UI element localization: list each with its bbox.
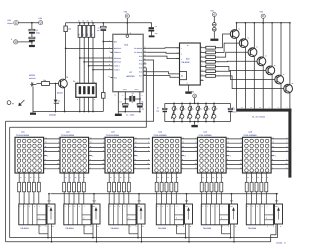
wire [108, 192, 110, 204]
svg-text:X1: X1 [132, 92, 134, 95]
svg-text:LD2: LD2 [66, 130, 70, 133]
svg-text:R: R [266, 218, 267, 220]
wire chain stub [276, 194, 278, 204]
wire pullup columns to IC1 pins [79, 37, 81, 83]
resistor R1 [42, 82, 50, 86]
wire chain stub [93, 194, 95, 204]
svg-text:13: 13 [20, 177, 22, 179]
wire DIP to ground bus [79, 97, 81, 111]
resistor array module 1 [18, 182, 21, 192]
svg-text:T9: T9 [66, 76, 68, 79]
svg-text:C4: C4 [119, 101, 121, 104]
bus bar horizontal row bus [236, 109, 291, 112]
transistor T9 BC547 [59, 79, 68, 88]
svg-text:C: C [181, 48, 182, 50]
legend jack symbol [7, 101, 11, 105]
capacitor C3 reset [102, 23, 104, 27]
wire data stub [51, 224, 53, 242]
ground [32, 112, 34, 113]
svg-text:XTAL2: XTAL2 [123, 89, 127, 91]
bus bar vertical row bus [288, 109, 291, 178]
svg-text:10: 10 [120, 177, 122, 179]
wire LD6 column pins [246, 173, 248, 182]
svg-text:A: A [181, 59, 182, 61]
wire base T3 [215, 43, 239, 52]
switch S2 [173, 103, 175, 105]
svg-text:10µ: 10µ [156, 109, 159, 112]
capacitor C4 [123, 104, 129, 106]
svg-text:74LS156: 74LS156 [181, 61, 190, 64]
wire [18, 41, 32, 43]
wire [124, 99, 126, 104]
svg-text:250mA: 250mA [7, 22, 13, 25]
node junction [31, 22, 33, 24]
svg-text:SRG: SRG [230, 206, 233, 208]
svg-text:XTAL1: XTAL1 [135, 89, 139, 91]
svg-text:10: 10 [167, 177, 169, 179]
wire chain stub [138, 194, 140, 204]
wire collector column [271, 74, 273, 108]
wire gnd stub [176, 225, 178, 234]
svg-text:LD6: LD6 [249, 130, 253, 133]
resistor array module 2 [63, 182, 66, 192]
clock box IC7 [230, 204, 238, 224]
wire [156, 192, 158, 204]
svg-text:C8: C8 [233, 108, 235, 111]
svg-text:13: 13 [65, 177, 67, 179]
svg-text:100µ: 100µ [36, 31, 40, 34]
svg-text:LD3: LD3 [111, 130, 115, 133]
svg-text:100n: 100n [233, 110, 237, 113]
wire P1.2 to IC2 [146, 56, 179, 59]
resistor array module 4 [155, 182, 158, 192]
svg-text:10: 10 [30, 177, 32, 179]
wire LD1 column pins [18, 173, 20, 182]
svg-text:=: = [12, 101, 14, 105]
wire [65, 23, 67, 26]
capacitor C8 [229, 103, 231, 108]
wire [194, 122, 196, 125]
svg-text:13: 13 [110, 177, 112, 179]
wire [63, 192, 65, 204]
wire [32, 87, 34, 112]
clock box IC8 [275, 204, 283, 224]
wire [18, 192, 20, 204]
svg-text:10: 10 [212, 177, 214, 179]
svg-text:10k: 10k [43, 79, 46, 82]
svg-text:R5: R5 [87, 20, 89, 22]
wire board bus left vertical 1 [5, 121, 7, 242]
capacitor C5 [137, 104, 143, 106]
ground [191, 125, 197, 127]
node 0V terminal [14, 40, 18, 44]
ground [185, 91, 191, 93]
wire chain stub [186, 194, 188, 204]
wire base T6 [215, 67, 266, 71]
node connector pin [212, 27, 216, 31]
resistor array module 5 [200, 182, 203, 192]
svg-text:13: 13 [202, 177, 204, 179]
wire clock stub [92, 224, 94, 238]
wire key rail bottom [165, 121, 231, 123]
svg-text:10k: 10k [87, 33, 89, 35]
wire LD4 column pins [156, 173, 158, 182]
capacitor C2 [29, 37, 35, 39]
wire [126, 18, 128, 34]
wire data stub [188, 224, 190, 242]
wire base T5 [215, 60, 257, 63]
resistor R7 [102, 93, 105, 99]
op-amp IC1 AT89C2051 [113, 34, 143, 91]
wire key rail top [165, 102, 231, 104]
resistor R15 [200, 70, 206, 72]
svg-text:C5: C5 [141, 101, 143, 104]
transistor T6 BC640 [266, 66, 275, 75]
transistor T7 BC640 [275, 75, 284, 84]
wire [213, 31, 215, 38]
capacitor C1 [29, 29, 35, 31]
wire emitter column [280, 23, 282, 76]
resistor R13 [200, 61, 206, 63]
node connector pin [212, 23, 216, 27]
wire [31, 34, 33, 38]
svg-text:10k: 10k [68, 27, 71, 30]
wire base [50, 83, 59, 85]
wire clock stub [137, 224, 139, 238]
diode D1 [55, 84, 57, 100]
svg-text:+5V: +5V [7, 19, 11, 22]
svg-text:89C2051: 89C2051 [126, 75, 135, 78]
resistor R14 [200, 66, 206, 68]
resistor R12 [200, 56, 206, 58]
ground [29, 45, 35, 47]
svg-text:13: 13 [247, 177, 249, 179]
switch S7 [213, 103, 215, 105]
switch S6 [205, 103, 207, 105]
svg-text:LD1: LD1 [21, 130, 25, 133]
svg-text:R: R [221, 218, 222, 220]
wire LD5 column pins [201, 173, 203, 182]
wire base T4 [215, 52, 248, 57]
svg-text:BC547: BC547 [57, 92, 63, 95]
svg-text:1N4148: 1N4148 [49, 113, 56, 116]
wire clock stub [47, 224, 49, 238]
svg-text:B: B [181, 53, 182, 55]
wire board bus left vertical 2 [9, 127, 11, 237]
resistor array module 6 [245, 182, 248, 192]
resistor array module 3 [108, 182, 111, 192]
wire collector column [253, 56, 255, 109]
wire RXD [66, 47, 111, 49]
gate enable box IC2 [180, 72, 187, 80]
capacitor C7 [164, 103, 166, 108]
wire data stub [96, 224, 98, 242]
ground [210, 39, 218, 41]
svg-text:T2...T8 = BC640: T2...T8 = BC640 [252, 115, 265, 118]
wire [277, 224, 279, 237]
clock box IC3 [47, 204, 55, 224]
wire LD2 row pins [89, 138, 105, 140]
clock box IC4 [92, 204, 100, 224]
wire emitter column [289, 23, 291, 85]
svg-text:MAX232: MAX232 [29, 77, 36, 80]
svg-text:74LS164: 74LS164 [203, 227, 212, 230]
svg-text:SRG: SRG [48, 206, 51, 208]
wire emitter column [271, 23, 273, 67]
wire board bus bottom data [6, 241, 271, 243]
wire [201, 192, 203, 204]
svg-text:74LS164: 74LS164 [248, 227, 257, 230]
ground [117, 112, 119, 114]
wire +5V rail [66, 22, 152, 24]
transistor T4 BC640 [248, 48, 257, 57]
svg-text:R: R [84, 218, 85, 220]
wire gnd stub [83, 225, 85, 234]
svg-text:SRG: SRG [275, 206, 278, 208]
wire base T7 [215, 71, 274, 79]
wire emitter column [244, 23, 246, 40]
switch S3 [181, 103, 183, 105]
wire emitter column [262, 23, 264, 58]
clock box IC5 [137, 204, 145, 224]
wire chain stub [231, 194, 233, 204]
wire data stub [233, 224, 235, 242]
wire clock stub [185, 224, 187, 238]
svg-text:13: 13 [157, 177, 159, 179]
wire [246, 192, 248, 204]
svg-text:RS232: RS232 [29, 74, 35, 77]
wire [271, 224, 276, 242]
svg-text:16: 16 [187, 45, 189, 47]
svg-text:SRG: SRG [93, 206, 96, 208]
wire collector column [244, 47, 246, 109]
wire P1.1 to IC2 [146, 52, 179, 53]
wire board bus bottom clock [10, 237, 278, 239]
switch S5 [197, 103, 199, 105]
svg-text:74LS164: 74LS164 [65, 227, 74, 230]
wire LD6 row pins [271, 138, 288, 140]
wire collector column [236, 38, 238, 109]
wire collector line to RXD [65, 32, 67, 80]
svg-text:74LS164: 74LS164 [20, 227, 29, 230]
clock box IC6 [185, 204, 193, 224]
wire LD2 column pins [63, 173, 65, 182]
wire collector column [280, 83, 282, 108]
svg-text:R4: R4 [82, 20, 84, 22]
svg-text:+5V: +5V [123, 10, 127, 13]
svg-text:10k: 10k [78, 33, 80, 35]
wire emitter [64, 88, 66, 112]
wire collector column [262, 65, 264, 109]
resistor R2 [64, 26, 67, 32]
svg-text:10: 10 [257, 177, 259, 179]
wire chain stub [48, 194, 50, 204]
wire +5V rail transistors [237, 22, 290, 24]
transistor T8 BC640 [284, 84, 293, 93]
ground [149, 35, 155, 37]
svg-text:SRG: SRG [138, 206, 141, 208]
wire P1.0 to IC2 [146, 47, 179, 50]
resistor R16 [200, 75, 206, 77]
wire clock stub [230, 224, 232, 238]
wire data stub [141, 224, 143, 242]
wire P1.3 data down [6, 60, 154, 121]
svg-text:R6: R6 [91, 20, 93, 22]
wire gnd stub [221, 225, 223, 234]
svg-text:+5V: +5V [38, 17, 42, 20]
wire crystal ground rail [118, 111, 140, 113]
resistor R10 [200, 47, 206, 49]
wire LD4 row pins [181, 138, 197, 140]
svg-text:S1: S1 [73, 80, 75, 83]
svg-text:D1: D1 [58, 100, 60, 103]
wire P1.6 to IC2 enable [146, 72, 176, 74]
wire shift chain line [51, 193, 279, 195]
wire [213, 17, 215, 23]
wire LD3 column pins [108, 173, 110, 182]
svg-text:SRG: SRG [185, 206, 188, 208]
wire P1.7 to IC2 enable [146, 76, 176, 78]
transistor T3 BC640 [239, 39, 248, 48]
wire collector column [289, 92, 291, 108]
capacitor C6 supply [150, 22, 151, 24]
wire ground bus left [33, 111, 103, 113]
wire [102, 98, 104, 111]
wire [18, 22, 38, 24]
svg-text:0: 0 [11, 38, 12, 41]
wire emitter column [253, 23, 255, 49]
svg-text:LD5: LD5 [204, 130, 208, 133]
wire P1.5 strobe down [10, 68, 147, 128]
wire base T8 [215, 76, 283, 89]
svg-text:R: R [176, 218, 177, 220]
switch S4 [189, 103, 191, 105]
svg-text:X1 = 4MHz: X1 = 4MHz [126, 113, 135, 116]
svg-text:R: R [39, 218, 40, 220]
svg-text:10: 10 [75, 177, 77, 179]
svg-text:C7: C7 [157, 107, 159, 110]
resistor R11 [200, 51, 206, 53]
wire emitter column [236, 23, 238, 30]
wire LD1 row pins [44, 138, 60, 140]
wire IC2 gnd [188, 85, 190, 91]
wire [31, 23, 33, 30]
svg-text:R: R [129, 218, 130, 220]
svg-text:74LS164: 74LS164 [158, 227, 167, 230]
transistor T5 BC640 [257, 57, 266, 66]
transistor T2 BC640 [230, 30, 239, 39]
wire reset node [102, 31, 104, 93]
wire LD3 row pins [134, 138, 150, 140]
wire gnd stub [128, 225, 130, 234]
svg-text:010062 - 11: 010062 - 11 [276, 241, 285, 244]
op-amp IC2 74LS156 [180, 43, 201, 85]
wire base T2 [215, 34, 230, 48]
svg-text:74LS164: 74LS164 [110, 227, 119, 230]
wire LD5 row pins [226, 138, 242, 140]
svg-text:R3: R3 [78, 20, 80, 22]
svg-text:10k: 10k [92, 33, 94, 35]
svg-text:10k: 10k [83, 33, 85, 35]
svg-text:+5V: +5V [259, 11, 263, 14]
wire gnd stub [38, 225, 40, 234]
